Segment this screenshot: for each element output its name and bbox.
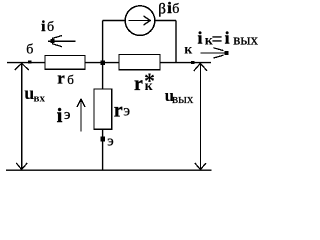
svg-text:i: i <box>41 19 45 35</box>
svg-text:*: * <box>144 68 155 93</box>
wire current-source loop: top right segment <box>155 20 176 22</box>
node junction dot (base net) <box>101 61 105 65</box>
svg-text:=: = <box>212 29 223 50</box>
arrow uвх (double-headed vertical) <box>15 63 29 169</box>
arrow iэ (points up) <box>77 99 85 131</box>
wire current-source loop: right vertical down to rail <box>175 21 177 63</box>
svg-text:к: к <box>184 43 193 58</box>
arrow iб (points left) <box>48 36 75 47</box>
svg-text:б: б <box>172 2 179 17</box>
wire bottom rail <box>6 169 212 171</box>
node к dot <box>191 61 195 64</box>
svg-text:r: r <box>57 69 65 88</box>
svg-text:э: э <box>107 134 113 150</box>
current source U1 arrow <box>129 16 151 25</box>
resistor Rк* box <box>119 55 160 70</box>
node э dot <box>100 137 105 142</box>
node б dot <box>28 60 32 63</box>
svg-text:б: б <box>67 72 74 87</box>
svg-text:вых: вых <box>233 33 258 49</box>
svg-text:вх: вх <box>34 93 46 105</box>
svg-text:r: r <box>114 100 123 122</box>
svg-text:б: б <box>26 43 33 58</box>
svg-text:б: б <box>47 20 54 35</box>
wire current-source loop: top left segment <box>103 20 125 22</box>
svg-text:э: э <box>123 102 130 119</box>
wire top rail <box>7 62 211 64</box>
resistor Rб box <box>45 56 85 70</box>
arrow iк (points right) <box>201 48 227 58</box>
svg-text:r: r <box>134 73 143 95</box>
svg-text:i: i <box>57 105 63 127</box>
current source U1 (βiб) circle <box>125 6 155 36</box>
resistor Rэ box <box>94 89 112 129</box>
svg-text:i: i <box>225 29 230 48</box>
svg-text:β: β <box>158 2 166 18</box>
arrow iб tip dot <box>50 39 54 43</box>
wire emitter lead from r_э down to bottom rail <box>102 129 104 170</box>
wire current-source loop: vertical up from junction <box>102 21 104 63</box>
svg-text:вых: вых <box>172 91 194 106</box>
svg-text:э: э <box>64 107 70 123</box>
svg-text:i: i <box>198 29 203 48</box>
wire emitter lead from junction down to r_э <box>102 63 104 89</box>
arrow iк tip dot <box>224 51 228 55</box>
arrow uвых (double-headed vertical) <box>194 63 207 169</box>
